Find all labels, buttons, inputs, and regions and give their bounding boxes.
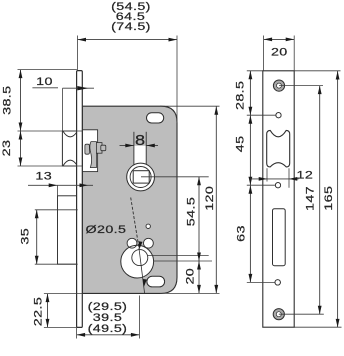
svg-text:35: 35 <box>18 228 31 245</box>
dimension 120 <box>160 106 220 293</box>
dimension 10 <box>32 75 94 131</box>
small hole <box>146 224 150 228</box>
deadbolt opening <box>273 209 286 266</box>
bottom screw hole <box>273 309 284 320</box>
redraw pilot holes over leaders <box>275 113 281 285</box>
square spindle hole <box>133 171 149 183</box>
spindle channel <box>134 132 146 168</box>
cam extension lines <box>148 255 212 261</box>
pilot hole 2 <box>275 183 280 188</box>
svg-text:(49.5): (49.5) <box>88 321 128 334</box>
strike dimension 12 <box>250 168 313 188</box>
top screw hole <box>273 80 284 91</box>
strike plate <box>263 71 294 327</box>
lower obround hole <box>147 276 165 287</box>
svg-text:23: 23 <box>0 140 13 157</box>
svg-text:12: 12 <box>297 168 314 181</box>
bottom dimension 39.5 <box>77 296 140 339</box>
diameter label <box>86 222 127 235</box>
svg-text:165: 165 <box>322 186 335 211</box>
strike dimension 20 <box>264 36 295 71</box>
small circle right <box>144 238 154 248</box>
dimension 22.5 <box>31 294 82 328</box>
strike dimension 147 <box>279 86 324 315</box>
strike dimension 165 <box>294 71 341 328</box>
svg-text:120: 120 <box>203 186 216 211</box>
faceplate <box>77 71 83 328</box>
dimension 35 <box>18 210 78 264</box>
svg-text:10: 10 <box>36 75 53 88</box>
latch tail pieces <box>85 142 106 168</box>
pilot hole 1 <box>276 113 281 118</box>
diameter leader line <box>131 198 147 294</box>
strike chain dimension 28.5 / 45 / 63 <box>233 71 279 283</box>
upper obround hole <box>147 113 164 123</box>
spindle hub inner circle <box>130 167 151 188</box>
right chain dimension 54.5 / 20 <box>183 177 201 294</box>
latch opening <box>267 130 290 167</box>
svg-text:22.5: 22.5 <box>31 297 44 326</box>
svg-text:(74.5): (74.5) <box>111 20 151 33</box>
deadbolt <box>58 196 78 264</box>
small circle left <box>127 238 137 248</box>
svg-text:38.5: 38.5 <box>0 86 13 115</box>
svg-text:Ø20.5: Ø20.5 <box>86 222 127 235</box>
cylinder hole circle <box>121 245 154 278</box>
spindle hub outer circle <box>127 163 155 191</box>
pilot hole 3 <box>275 280 280 285</box>
top dimension 64.5 <box>78 0 178 123</box>
lock case body <box>82 106 177 293</box>
svg-text:45: 45 <box>233 136 246 153</box>
svg-text:28.5: 28.5 <box>233 81 246 110</box>
left chain dimension 38.5 / 23 <box>0 70 82 166</box>
svg-text:54.5: 54.5 <box>184 197 197 226</box>
svg-text:20: 20 <box>271 45 288 58</box>
dimension 13 <box>28 169 93 196</box>
latch mechanism cutout <box>82 130 97 172</box>
svg-text:8: 8 <box>135 133 145 149</box>
svg-text:20: 20 <box>183 268 196 285</box>
dimension 8 <box>120 133 159 149</box>
latch bolt <box>62 131 82 166</box>
svg-text:147: 147 <box>303 186 316 211</box>
hub centre leader <box>141 176 209 178</box>
svg-text:63: 63 <box>234 225 247 242</box>
circle outlines <box>121 238 154 278</box>
svg-text:13: 13 <box>35 169 52 182</box>
